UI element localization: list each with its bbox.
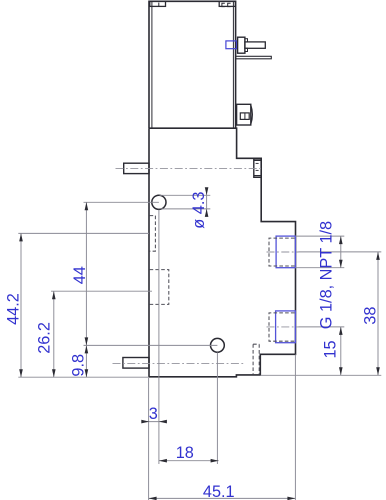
ext o4.3 top	[160, 194, 211, 196]
mounting tab upper left	[124, 163, 149, 173]
arrows 15	[339, 327, 343, 335]
side plate top bar	[254, 159, 261, 161]
valve body outline	[149, 128, 296, 377]
side plate bottom bar	[254, 175, 261, 177]
port upper hidden hole	[269, 238, 295, 266]
svg-text:15: 15	[322, 340, 340, 358]
arrows 38	[376, 252, 380, 260]
dim line 18	[159, 460, 219, 462]
dimension lines	[21, 190, 378, 499]
port lower hidden hole	[269, 313, 295, 341]
connector step bottom	[245, 48, 248, 51]
arrows G1/8	[339, 236, 343, 244]
dim line 15	[340, 327, 342, 375]
side plate feature	[254, 159, 261, 177]
bracket on solenoid right	[237, 104, 251, 125]
ext bottom right	[261, 374, 382, 376]
dim line 26.2	[53, 291, 55, 377]
ext hole1 center	[84, 201, 159, 203]
ext left face down	[148, 378, 150, 500]
svg-text:44: 44	[71, 266, 89, 284]
svg-text:38: 38	[362, 307, 380, 325]
svg-text:26.2: 26.2	[36, 322, 54, 354]
dim line G1/8	[340, 236, 342, 268]
dim line 45.1	[149, 497, 296, 499]
ext bottom left	[18, 376, 149, 378]
hidden slot mid left	[150, 270, 169, 305]
svg-text:9.8: 9.8	[69, 354, 87, 377]
centerline upper tab	[116, 168, 263, 170]
connector block	[238, 37, 245, 53]
ext hole2 down	[216, 352, 218, 464]
bracket inner window	[240, 113, 249, 120]
arrows 44	[85, 202, 89, 210]
hidden slot bottom right	[253, 344, 259, 374]
ext port1 center right	[299, 251, 382, 253]
solenoid top-right tab	[219, 1, 235, 6]
port upper thread (blue)	[276, 236, 295, 268]
port lower thread (blue)	[276, 311, 296, 343]
svg-text:45.1: 45.1	[203, 483, 235, 500]
ext 26.2 top	[51, 290, 152, 292]
right tab clip mark 1	[222, 3, 225, 6]
centerline port lower	[267, 326, 299, 328]
centerline lower tab	[113, 363, 246, 365]
ext port1 bottom	[296, 267, 345, 269]
tab tick mark	[158, 3, 160, 7]
connector step top	[245, 39, 248, 42]
dim line 3	[144, 421, 164, 423]
solenoid top-left tab	[150, 1, 166, 6]
svg-text:G 1/8, NPT 1/8: G 1/8, NPT 1/8	[318, 221, 336, 329]
dim line o4.3	[206, 190, 208, 215]
arrows 18	[159, 459, 167, 463]
bracket inner divider	[244, 113, 246, 120]
hole circle lower	[211, 338, 225, 352]
arrows o4.3 (outside)	[205, 187, 209, 195]
ext hole2 center	[84, 344, 218, 346]
dim line 38	[377, 252, 379, 375]
hidden slot upper left	[150, 216, 156, 252]
arrowheads	[19, 187, 380, 500]
connector blue hidden rect	[226, 41, 237, 49]
svg-text:ø 4.3: ø 4.3	[190, 192, 208, 229]
mounting tab lower left	[123, 358, 149, 369]
arrows 3 (outside)	[141, 420, 149, 424]
side plate marks	[256, 162, 259, 164]
svg-text:44.2: 44.2	[4, 293, 22, 325]
dim line 44 + 9.8	[85, 202, 87, 377]
ext o4.3 bottom	[161, 208, 211, 210]
arrows 44.2	[19, 233, 23, 241]
arrows 26.2	[52, 291, 56, 299]
arrows 9.8	[85, 345, 89, 353]
ext hole1 down	[158, 210, 160, 464]
connector pin upper	[245, 42, 265, 48]
arrows 45.1	[149, 497, 157, 500]
dim line 44.2	[20, 233, 22, 377]
ext port1 top	[296, 235, 345, 237]
ext port2 center right	[299, 326, 345, 328]
bracket curved face	[251, 105, 253, 125]
extension lines	[18, 195, 381, 500]
solenoid coil body outline	[149, 1, 236, 128]
solenoid inner wall lines	[152, 1, 234, 128]
hole circle upper (o4.3)	[152, 195, 166, 209]
centerline port upper	[267, 251, 299, 253]
svg-text:3: 3	[149, 405, 158, 423]
svg-text:18: 18	[176, 444, 194, 462]
right tab clip mark 2	[228, 3, 231, 6]
connector pin lower	[236, 56, 272, 59]
ext 44.2 top	[18, 232, 149, 234]
ext right face down	[294, 355, 296, 500]
